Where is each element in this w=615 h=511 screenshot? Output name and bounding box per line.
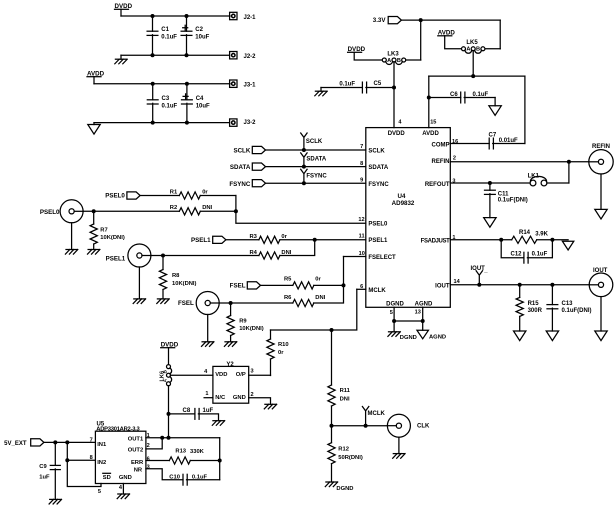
svg-text:3.3V: 3.3V <box>373 17 387 24</box>
svg-text:SD: SD <box>103 475 111 481</box>
svg-text:3: 3 <box>452 179 455 185</box>
ground (J2 filter) <box>115 59 127 64</box>
svg-text:J3-1: J3-1 <box>244 82 257 88</box>
wire LK6 to Y2 VDD <box>170 374 213 376</box>
wire DGND-AGND tie <box>394 320 423 322</box>
capacitor C2 <box>181 25 192 35</box>
connector PSEL0 BNC <box>60 200 83 223</box>
wire MCLK to CLK BNC <box>332 425 388 427</box>
signal flag SDATA <box>252 163 265 170</box>
svg-text:0r: 0r <box>315 277 321 283</box>
junction C2 top <box>185 14 189 18</box>
svg-text:A: A <box>466 47 470 53</box>
svg-text:5: 5 <box>98 489 101 495</box>
wire REFOUT <box>450 182 530 184</box>
wire pin 10 riser <box>343 257 345 286</box>
svg-text:2: 2 <box>147 443 150 449</box>
junction C13 <box>550 283 554 287</box>
svg-text:13: 13 <box>415 310 421 316</box>
junction C2 bottom <box>185 53 189 57</box>
junction R5/R6 <box>342 283 346 287</box>
capacitor C3 <box>147 100 158 104</box>
wire Y2 GND lead <box>249 398 271 405</box>
wire C1 upper lead <box>152 16 154 31</box>
wire R15 upper lead <box>519 285 521 298</box>
jumper LK1 <box>530 176 547 186</box>
jumper LK5 <box>462 47 485 53</box>
wire R4 to junction <box>280 240 315 256</box>
junction C6 <box>427 96 431 100</box>
resistor R15 <box>516 297 523 316</box>
ground AGND (IOUT BNC) <box>595 331 607 341</box>
svg-text:SDATA: SDATA <box>230 164 251 171</box>
wire R13 to riser <box>190 460 219 462</box>
wire C3 upper lead <box>152 84 154 100</box>
svg-text:10uF: 10uF <box>195 34 209 40</box>
junction SD branch <box>65 458 69 462</box>
wire C6 right lead <box>464 97 495 99</box>
wire C7 to AVDD riser <box>493 143 525 145</box>
junction 3.3V/LK3 <box>419 18 423 22</box>
resistor R13 <box>169 457 190 464</box>
wire R6 to junction <box>314 285 344 303</box>
wire LK5 B lead <box>485 48 500 50</box>
connector J2-1 <box>230 12 237 19</box>
wire LK5 center down <box>472 51 474 76</box>
svg-text:LK5: LK5 <box>466 40 478 46</box>
svg-text:C2: C2 <box>195 27 203 33</box>
svg-text:Y2: Y2 <box>226 362 234 368</box>
connector IOUT BNC <box>589 273 613 297</box>
wire PSEL1 BNC to R4 <box>151 255 259 257</box>
junction IOUT_ stub <box>477 283 481 287</box>
svg-text:FSEL: FSEL <box>178 300 194 307</box>
svg-text:C11: C11 <box>498 191 509 197</box>
wire R1 to riser <box>200 195 236 197</box>
svg-text:DNI: DNI <box>340 397 350 403</box>
svg-text:PSEL0: PSEL0 <box>105 192 125 199</box>
ground AGND (C11) <box>484 218 496 228</box>
svg-text:R10: R10 <box>278 342 289 348</box>
svg-text:ADP3301AR2-3.3: ADP3301AR2-3.3 <box>96 426 140 432</box>
wire C9 lower lead <box>54 469 56 500</box>
svg-text:R1: R1 <box>170 190 178 196</box>
svg-text:B: B <box>476 47 480 53</box>
wire C10 to riser <box>187 479 220 481</box>
junction SCLK stub <box>302 148 306 152</box>
ground AGND (C6) <box>489 106 501 116</box>
ground AGND (R15) <box>514 331 526 341</box>
svg-text:C3: C3 <box>162 96 170 102</box>
svg-text:R9: R9 <box>239 319 247 325</box>
wire R9 lower lead <box>230 336 232 342</box>
wire J3 bottom rail <box>94 122 230 124</box>
junction C11 <box>488 181 492 185</box>
svg-text:LK6: LK6 <box>160 371 166 382</box>
net stub MCLK <box>362 407 368 426</box>
svg-text:C9: C9 <box>39 464 47 470</box>
resistor R3 <box>259 236 280 243</box>
wire C13 upper lead <box>551 285 553 305</box>
svg-text:14: 14 <box>454 279 461 285</box>
wire feedback riser <box>219 438 221 480</box>
wire DGND stem <box>393 321 395 332</box>
wire AVDD to LK5 A <box>445 36 462 49</box>
signal flag SCLK <box>252 146 265 153</box>
ground (U5 GND) <box>117 494 129 499</box>
svg-text:R8: R8 <box>172 273 180 279</box>
wire J3 top rail <box>94 83 230 85</box>
resistor R2 <box>179 208 200 215</box>
ground (C9) <box>49 499 61 504</box>
svg-text:DGND: DGND <box>336 486 353 492</box>
svg-text:AGND: AGND <box>429 334 446 340</box>
svg-text:C12: C12 <box>511 252 523 258</box>
svg-text:C8: C8 <box>183 408 191 414</box>
wire OUT2 tie <box>146 438 162 449</box>
svg-text:R4: R4 <box>250 250 258 256</box>
connector J3-2 <box>230 119 237 126</box>
ground (PSEL1 BNC) <box>133 299 145 304</box>
wire C6 ground stem <box>494 98 496 106</box>
ground AGND (REFIN BNC) <box>595 209 607 219</box>
wire J2 bottom rail <box>121 54 230 56</box>
wire C12 right loop <box>527 240 552 258</box>
junction MCLK net <box>330 424 334 428</box>
capacitor C9 <box>50 465 60 469</box>
svg-text:3.9K: 3.9K <box>535 232 548 238</box>
connector PSEL1 BNC <box>128 244 151 267</box>
connector J2-2 <box>230 52 237 59</box>
svg-text:1uF: 1uF <box>39 475 50 481</box>
wire CLK BNC ground lead <box>398 437 400 453</box>
resistor R4 <box>259 252 280 259</box>
svg-text:0r: 0r <box>202 190 208 196</box>
wire 5V_EXT to IN1 <box>44 441 96 443</box>
wire pin 13 lead <box>422 307 424 321</box>
wire OUT1 rail <box>146 437 220 439</box>
svg-text:PSEL0: PSEL0 <box>40 209 60 216</box>
wire NR to C10 <box>146 469 183 480</box>
svg-text:MCLK: MCLK <box>368 411 386 417</box>
junction AVDD branch <box>471 74 475 78</box>
wire C6 left lead <box>429 97 461 99</box>
svg-text:DGND: DGND <box>386 301 404 307</box>
svg-text:7: 7 <box>360 144 363 150</box>
wire R7 lower lead <box>93 244 95 250</box>
wire AVDD branch rail <box>429 75 525 77</box>
svg-text:10K(DNI): 10K(DNI) <box>100 235 125 241</box>
wire C4 upper lead <box>186 84 188 100</box>
svg-text:3: 3 <box>251 369 254 375</box>
svg-text:SCLK: SCLK <box>233 147 250 154</box>
junction R4/pin11 <box>313 238 317 242</box>
svg-text:8: 8 <box>360 161 363 167</box>
junction C8 <box>167 412 171 416</box>
junction SDATA stub <box>302 165 306 169</box>
ground (C8) <box>212 421 224 426</box>
svg-text:_: _ <box>483 268 488 274</box>
wire DVDD to LK6 <box>168 348 170 365</box>
svg-text:C5: C5 <box>374 81 382 87</box>
resistor R11 <box>328 385 335 406</box>
svg-text:FSYNC: FSYNC <box>229 181 251 188</box>
ground (PSEL0 BNC) <box>65 250 77 255</box>
resistor R12 <box>328 443 335 464</box>
svg-text:REFIN: REFIN <box>592 144 610 150</box>
wire C5 left lead <box>321 87 362 89</box>
wire FSEL BNC to R6 <box>219 302 293 304</box>
wire PSEL1 flag to R3 <box>226 239 259 241</box>
svg-text:PSEL1: PSEL1 <box>106 255 126 262</box>
capacitor C6 <box>461 92 465 103</box>
svg-text:PSEL1: PSEL1 <box>368 238 388 244</box>
net stub IOUT_ <box>476 271 482 285</box>
signal flag PSEL0 <box>127 192 140 199</box>
connector J3-1 <box>230 80 237 87</box>
svg-text:R2: R2 <box>170 205 177 211</box>
junction C5/pin4 <box>392 86 396 90</box>
wire IOUT <box>450 284 589 286</box>
resistor R5 <box>293 282 314 289</box>
wire C9 upper lead <box>54 442 56 465</box>
svg-text:11: 11 <box>359 234 365 240</box>
wire C2 lower lead <box>186 35 188 56</box>
wire ground stem J2 <box>120 55 122 59</box>
svg-text:330K: 330K <box>190 449 205 455</box>
oscillator Y2 body <box>213 366 249 403</box>
svg-text:R14: R14 <box>519 230 531 236</box>
wire pin 15 lead <box>428 76 430 128</box>
junction pin 13 <box>421 319 425 323</box>
wire SCLK <box>266 149 366 151</box>
wire C13 lower lead <box>551 308 553 331</box>
svg-text:1: 1 <box>205 391 208 397</box>
wire LK1 to riser <box>547 182 569 184</box>
svg-text:R7: R7 <box>100 228 107 234</box>
svg-text:PSEL0: PSEL0 <box>368 221 388 227</box>
ground (CLK BNC) <box>393 454 405 459</box>
svg-text:0.1uF: 0.1uF <box>162 103 178 109</box>
junction C1 bottom <box>151 53 155 57</box>
wire R5 to junction <box>314 284 344 286</box>
op-amp U4 AD9832 body <box>366 128 451 308</box>
svg-text:0.1uF: 0.1uF <box>532 252 548 258</box>
svg-text:R11: R11 <box>340 388 351 394</box>
wire C5 ground stem <box>320 88 322 92</box>
net stub SCLK <box>301 133 307 150</box>
svg-text:GND: GND <box>119 475 132 481</box>
svg-text:GND: GND <box>233 395 246 401</box>
svg-text:MCLK: MCLK <box>368 288 386 294</box>
junction C4 top <box>185 82 189 86</box>
wire PSEL0 flag to R1 <box>140 195 179 197</box>
svg-text:C7: C7 <box>489 132 497 138</box>
svg-text:NR: NR <box>134 468 143 474</box>
connector FSEL BNC <box>196 292 219 315</box>
svg-text:J3-2: J3-2 <box>244 120 257 126</box>
junction R9 <box>229 301 233 305</box>
wire COMP to C7 <box>450 143 489 145</box>
wire GND pin 4 lead <box>122 484 124 495</box>
svg-text:B: B <box>397 58 401 64</box>
svg-text:SDATA: SDATA <box>368 165 388 171</box>
svg-text:OUT2: OUT2 <box>128 448 143 454</box>
wire to SD pin 5 <box>67 460 101 486</box>
svg-text:N/C: N/C <box>215 395 226 401</box>
wire PSEL0 BNC to R2 <box>83 210 179 212</box>
svg-text:U4: U4 <box>398 193 406 200</box>
wire C1 lower lead <box>152 35 154 56</box>
wire R3 to pin 11 <box>280 239 366 241</box>
wire R10 upper lead <box>270 330 272 339</box>
ground (R9) <box>224 342 236 347</box>
svg-text:50R(DNI): 50R(DNI) <box>338 455 363 461</box>
wire LK3 B lead <box>406 59 421 61</box>
svg-text:R13: R13 <box>175 449 186 455</box>
wire to pin 12 <box>236 196 366 224</box>
connector CLK BNC <box>387 414 410 437</box>
capacitor C1 <box>147 31 158 35</box>
svg-text:SCLK: SCLK <box>306 139 323 145</box>
resistor R6 <box>293 299 314 306</box>
jumper LK3 <box>382 58 405 64</box>
wire C2 upper lead <box>186 16 188 31</box>
ground (C5) <box>315 91 327 96</box>
wire pin6 to R10 rail <box>271 289 357 330</box>
regulator U5 body <box>95 431 145 483</box>
ground AGND (R14) <box>562 241 573 250</box>
ground (R8) <box>157 299 169 304</box>
junction REFIN/LK1 <box>567 160 571 164</box>
junction OUT2 tie <box>160 436 164 440</box>
wire LK1 riser <box>568 162 570 183</box>
wire C11 upper lead <box>489 183 491 190</box>
junction R15 <box>518 283 522 287</box>
svg-text:5: 5 <box>390 310 393 316</box>
svg-text:ERR: ERR <box>131 460 144 466</box>
wire DVDD to LK3 A <box>354 52 382 60</box>
resistor R7 <box>90 224 97 244</box>
svg-text:FSELECT: FSELECT <box>368 255 396 261</box>
wire FSYNC <box>266 182 366 184</box>
junction C3 bottom <box>151 121 155 125</box>
svg-text:12: 12 <box>358 217 364 223</box>
capacitor C12 <box>524 252 528 263</box>
ground (R7) <box>88 250 100 255</box>
capacitor C5 <box>362 82 366 93</box>
svg-text:SCLK: SCLK <box>368 148 385 154</box>
wire R2 to riser <box>200 210 236 212</box>
ground DGND (U4) <box>388 332 400 337</box>
wire to IN2 <box>67 442 95 460</box>
svg-text:REFIN: REFIN <box>432 159 450 165</box>
wire C5 right lead <box>366 87 394 89</box>
svg-text:R5: R5 <box>284 277 292 283</box>
capacitor C10 <box>183 474 187 485</box>
svg-text:VDD: VDD <box>215 372 227 378</box>
svg-text:2: 2 <box>453 155 456 161</box>
wire MCLK riser upper <box>331 330 333 385</box>
signal flag FSYNC <box>252 180 265 187</box>
svg-text:3: 3 <box>147 465 150 471</box>
wire C4 lower lead <box>186 103 188 122</box>
wire C8 right lead <box>198 414 218 421</box>
wire LK6 down to OUT1 <box>168 386 170 438</box>
junction C9 <box>53 440 57 444</box>
wire R14 to ground <box>537 239 568 241</box>
junction R2/pin12 <box>234 209 238 213</box>
wire Y2 O/P to R10 <box>249 374 271 376</box>
junction R13/riser <box>218 459 222 463</box>
wire C3 lower lead <box>152 103 154 122</box>
wire R12 upper lead <box>331 426 333 443</box>
svg-text:5V_EXT: 5V_EXT <box>4 441 27 447</box>
net stub SDATA <box>301 153 307 167</box>
svg-text:FSADJUST: FSADJUST <box>421 238 451 244</box>
wire LK3 to pin4 upper <box>393 62 395 88</box>
wire R9 upper lead <box>230 303 232 316</box>
wire J2 top rail <box>121 15 230 17</box>
net stub FSYNC <box>301 169 307 183</box>
wire FSADJUST <box>450 239 511 241</box>
wire IOUT BNC ground lead <box>600 297 602 331</box>
wire SDATA <box>266 166 366 168</box>
svg-text:DGND: DGND <box>400 335 417 341</box>
signal flag 5V_EXT <box>31 439 44 446</box>
svg-text:J2-1: J2-1 <box>244 15 257 21</box>
junction C1 top <box>151 14 155 18</box>
junction MCLK stub <box>364 424 368 428</box>
wire AVDD to C7 <box>524 76 526 143</box>
svg-text:LK1: LK1 <box>528 173 540 179</box>
ground AGND (C13) <box>546 331 558 341</box>
svg-text:C10: C10 <box>169 475 180 481</box>
junction IN2 branch <box>65 440 69 444</box>
wire pin 6 stub <box>357 288 366 290</box>
svg-text:A: A <box>387 58 391 64</box>
wire AGND stem <box>422 321 424 330</box>
svg-text:0.1uF: 0.1uF <box>339 81 355 87</box>
wire pin 10 lead <box>344 256 366 258</box>
wire R11 lower lead <box>331 406 333 426</box>
svg-text:AD9832: AD9832 <box>392 200 415 207</box>
signal flag PSEL1 <box>213 236 226 243</box>
svg-text:10K(DNI): 10K(DNI) <box>239 326 264 332</box>
junction R8 <box>161 254 165 258</box>
wire PSEL1 BNC ground lead <box>138 267 140 299</box>
svg-text:J2-2: J2-2 <box>244 54 257 60</box>
svg-text:R15: R15 <box>528 301 540 307</box>
wire REFIN BNC ground lead <box>600 174 602 209</box>
svg-text:C1: C1 <box>161 27 169 33</box>
junction MCLK top <box>330 328 334 332</box>
svg-text:DNI: DNI <box>315 295 325 301</box>
capacitor C8 <box>195 409 199 420</box>
svg-text:SDATA: SDATA <box>306 157 326 163</box>
wire R7 upper lead <box>93 211 95 224</box>
wire 3.3V to LK5 B <box>499 20 501 49</box>
svg-text:DVDD: DVDD <box>388 131 406 137</box>
svg-text:0r: 0r <box>278 350 284 356</box>
power flag 3.3V <box>388 17 401 24</box>
ground DGND (R12) <box>325 482 337 487</box>
svg-text:R3: R3 <box>250 234 258 240</box>
junction DVDD rail <box>167 436 171 440</box>
svg-text:10K(DNI): 10K(DNI) <box>172 281 197 287</box>
svg-text:R12: R12 <box>338 446 349 452</box>
svg-text:IN1: IN1 <box>97 442 107 448</box>
